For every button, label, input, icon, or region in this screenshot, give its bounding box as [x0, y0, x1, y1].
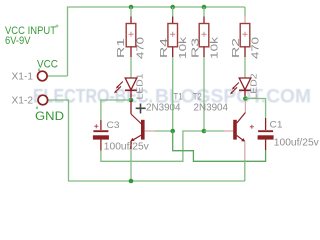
svg-text:T2: T2: [193, 92, 202, 102]
svg-text:C1: C1: [270, 120, 283, 131]
wire R2 to LED2: [244, 57, 246, 78]
polarity mark plus C3 value: [136, 104, 146, 114]
wire VCC top rail: [68, 7, 246, 76]
wire R1 to LED1: [130, 57, 132, 78]
svg-text:470: 470: [135, 37, 147, 59]
svg-text:10k: 10k: [208, 36, 220, 59]
wire LED1 node to C3 top: [101, 100, 131, 120]
svg-text:R1: R1: [115, 38, 127, 58]
svg-text:100uf/25v: 100uf/25v: [104, 142, 149, 153]
svg-text:R2: R2: [230, 38, 242, 58]
svg-text:6V-9V: 6V-9V: [5, 35, 31, 47]
capacitor C1: [250, 118, 319, 150]
wire T2 emitter to ground: [244, 160, 246, 181]
wire X1-2 to ground rail: [47, 100, 245, 181]
svg-text:100uf/25v: 100uf/25v: [274, 138, 319, 149]
wire R4 to T1 base: [172, 57, 174, 131]
svg-text:10k: 10k: [177, 36, 189, 59]
wire T2 base node to T2: [204, 130, 224, 132]
junction node LED1 cathode: [129, 98, 134, 103]
junction node rail R1: [129, 5, 134, 10]
junction node T1 base: [170, 129, 175, 134]
capacitor C3: [93, 120, 149, 153]
transistor T2: [193, 92, 246, 161]
svg-text:GND: GND: [35, 111, 64, 123]
svg-text:470: 470: [250, 37, 262, 59]
LED LED1: [114, 73, 144, 100]
LED LED2: [230, 73, 259, 100]
wire C3 bottom to T2 base: [101, 131, 204, 161]
svg-text:2N3904: 2N3904: [194, 103, 229, 114]
connector pin X1-2: [38, 95, 48, 105]
resistor R4: [158, 7, 189, 59]
wire X1-1 to rail: [47, 75, 68, 77]
resistor R3: [189, 7, 220, 59]
svg-text:LED1: LED1: [135, 73, 144, 100]
svg-text:T1: T1: [174, 92, 183, 102]
svg-text:R4: R4: [158, 38, 170, 58]
svg-text:LED2: LED2: [250, 73, 259, 100]
junction node emitter ground: [129, 179, 134, 184]
svg-text:VCC: VCC: [37, 59, 58, 71]
connector pin X1-1: [38, 71, 48, 81]
svg-text:C3: C3: [107, 120, 120, 131]
wire R3 to T2 base: [203, 57, 205, 131]
svg-text:2N3904: 2N3904: [146, 103, 181, 114]
svg-text:X1-2: X1-2: [12, 96, 34, 107]
wire LED2 node to C1 top: [245, 99, 265, 119]
wire T1 base to C1 bottom: [173, 131, 266, 161]
junction node rail R3: [202, 5, 207, 10]
junction node LED2 cathode: [243, 96, 248, 101]
wire T1 emitter to ground: [130, 149, 132, 181]
junction node T2 base: [202, 129, 207, 134]
junction node rail R4: [170, 5, 175, 10]
resistor R1: [115, 7, 147, 59]
svg-text:X1-1: X1-1: [12, 72, 34, 83]
resistor R2: [230, 7, 261, 59]
transistor T1: [130, 92, 182, 150]
svg-text:R3: R3: [189, 38, 201, 58]
